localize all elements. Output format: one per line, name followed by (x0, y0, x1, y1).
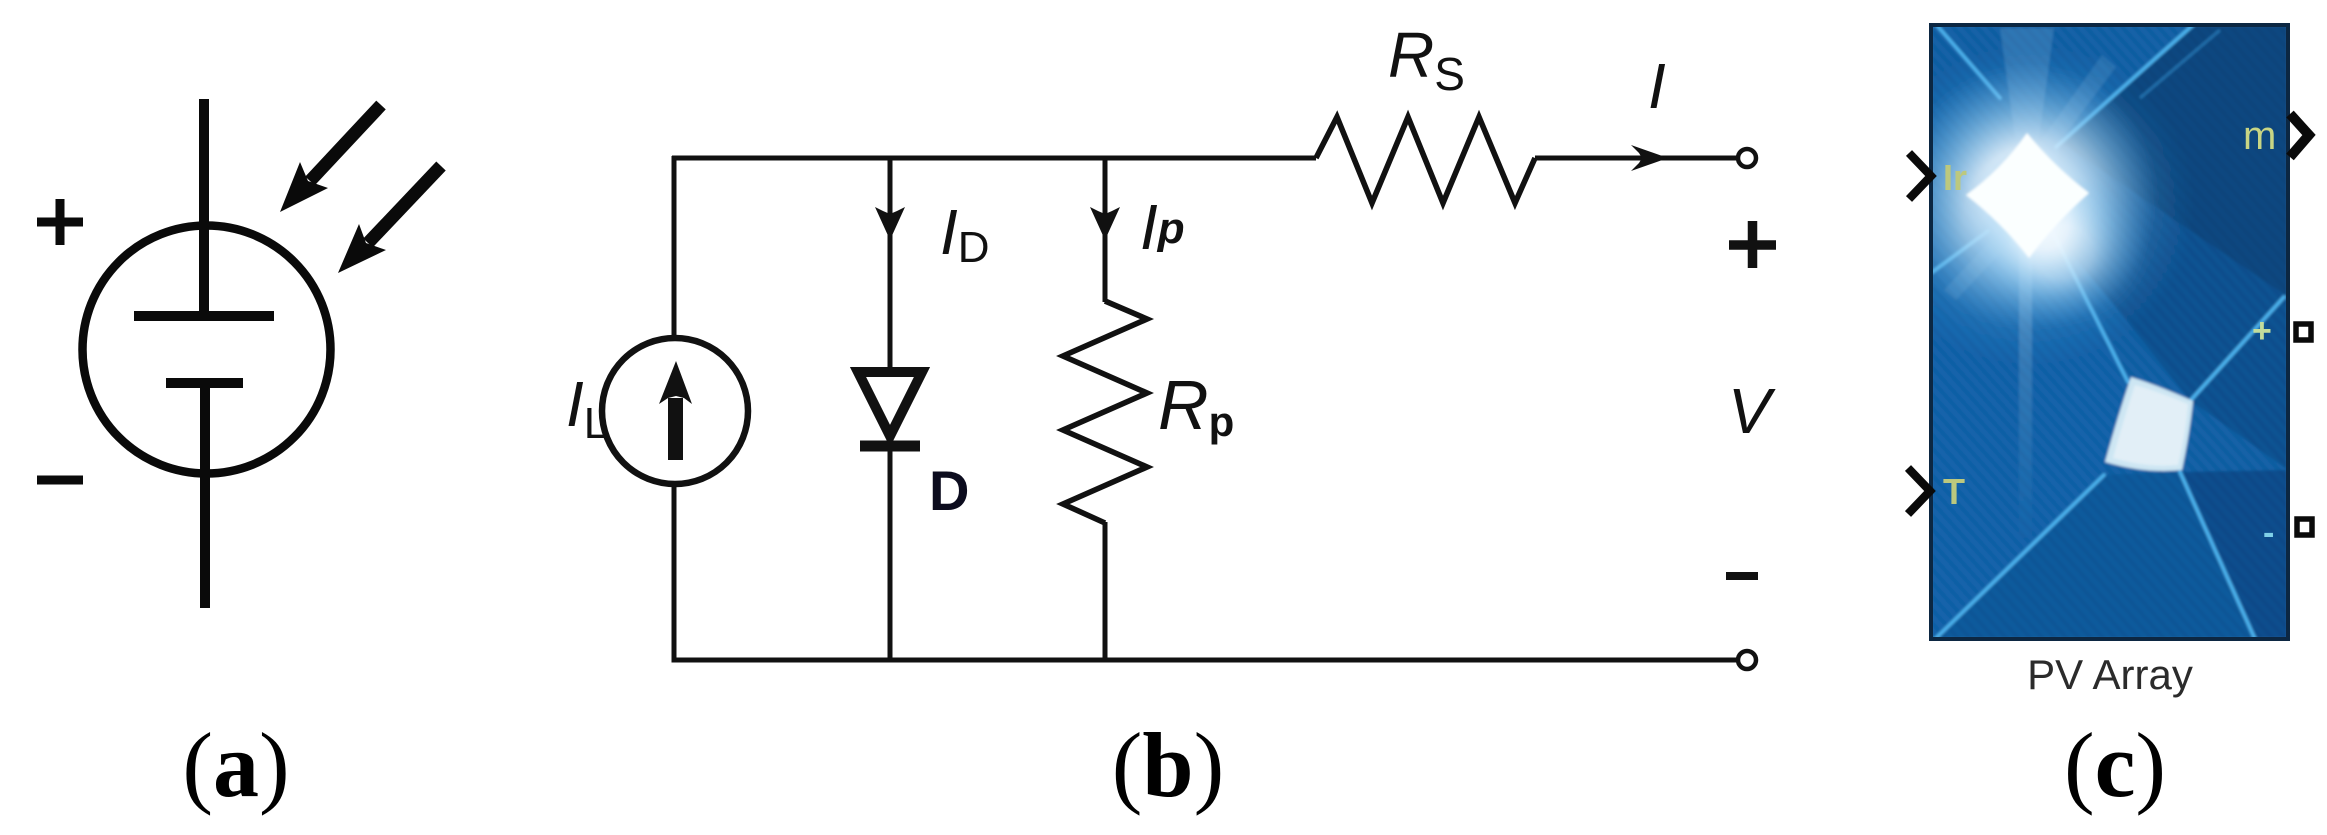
wire left rail (672, 156, 677, 337)
svg-text:(c): (c) (2064, 714, 2166, 816)
resistor Rp (1063, 301, 1147, 523)
svg-text:m: m (2243, 114, 2276, 158)
minus sign output (1726, 572, 1758, 580)
current arrow Ip (1090, 207, 1120, 240)
battery long plate (134, 311, 274, 321)
minus sign (37, 476, 83, 485)
wire positive terminal lead (199, 99, 209, 318)
svg-text:(b): (b) (1112, 714, 1224, 816)
svg-text:T: T (1943, 471, 1965, 512)
flare star rays (2000, 28, 2054, 160)
diode D (858, 372, 922, 446)
svg-text:PV Array: PV Array (2027, 651, 2193, 698)
light arrow 1 (280, 105, 381, 212)
input port chevron Ir (1909, 153, 1931, 199)
current source IL circle (602, 338, 748, 484)
svg-text:+: + (2252, 312, 2272, 350)
current arrow I (1631, 145, 1668, 171)
lens flare glow (1898, 62, 2158, 330)
PV array block photo (1865, 22, 2288, 640)
output port chevron m (2290, 114, 2309, 157)
svg-text:(a): (a) (182, 714, 289, 816)
battery short plate (166, 378, 243, 388)
svg-text:-: - (2263, 514, 2274, 552)
wire below Rp (1103, 522, 1108, 660)
flare2 pale diamond (2105, 377, 2193, 471)
plus sign (37, 199, 83, 245)
solar cell body circle (83, 226, 331, 474)
plus sign output (1729, 221, 1776, 268)
terminal top (1738, 149, 1756, 167)
block border (1931, 25, 2288, 639)
current source arrow (659, 361, 692, 460)
light arrow 2 (338, 166, 441, 273)
current arrow ID (875, 207, 905, 240)
terminal bottom (1738, 651, 1756, 669)
wire negative terminal lead (200, 383, 210, 608)
resistor RS (1316, 117, 1535, 203)
wire Rp branch (1103, 158, 1108, 302)
output port square plus (2296, 324, 2311, 340)
svg-text:D: D (929, 459, 969, 522)
wire diode branch (888, 158, 893, 660)
wire output top (1535, 156, 1737, 161)
input port chevron T (1908, 468, 1930, 514)
bright panel gridlines (1931, 22, 2284, 640)
wire top rail (672, 156, 1316, 161)
svg-text:I: I (1648, 50, 1666, 122)
output port square minus (2297, 519, 2312, 535)
lens flare vertical ray (2019, 240, 2032, 540)
flare core diamond (1966, 133, 2089, 258)
wire left rail lower (674, 485, 1737, 660)
svg-text:V: V (1728, 375, 1776, 447)
svg-text:Ir: Ir (1943, 157, 1967, 198)
